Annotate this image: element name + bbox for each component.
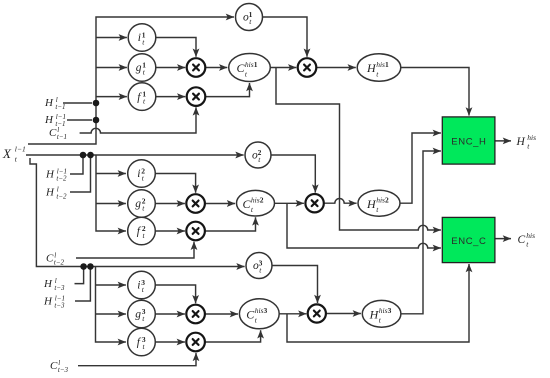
svg-text:i: i xyxy=(137,168,140,180)
svg-text:C: C xyxy=(518,234,526,246)
svg-text:his: his xyxy=(376,60,385,69)
svg-text:t−2: t−2 xyxy=(56,193,67,201)
svg-text:t: t xyxy=(526,239,529,248)
svg-text:2: 2 xyxy=(260,196,264,205)
svg-text:H: H xyxy=(43,296,53,308)
svg-text:H: H xyxy=(43,278,53,290)
svg-text:ENC_H: ENC_H xyxy=(451,136,486,147)
svg-text:t−2: t−2 xyxy=(54,259,65,267)
svg-text:H: H xyxy=(516,136,526,148)
svg-text:t−1: t−1 xyxy=(55,103,65,111)
svg-text:his: his xyxy=(379,306,388,315)
svg-text:3: 3 xyxy=(388,306,392,315)
svg-text:i: i xyxy=(138,32,141,44)
svg-text:X: X xyxy=(2,146,12,161)
svg-text:C: C xyxy=(50,360,58,372)
svg-text:g: g xyxy=(135,198,141,210)
svg-text:t−3: t−3 xyxy=(54,302,65,310)
svg-text:his: his xyxy=(251,196,260,205)
svg-text:his: his xyxy=(245,60,254,69)
svg-text:t: t xyxy=(527,141,530,150)
svg-text:i: i xyxy=(137,280,140,292)
svg-text:H: H xyxy=(44,97,54,109)
svg-text:3: 3 xyxy=(264,306,268,315)
svg-text:t−3: t−3 xyxy=(54,284,65,292)
svg-text:g: g xyxy=(135,309,141,321)
svg-text:l−1: l−1 xyxy=(15,145,26,154)
svg-text:ENC_C: ENC_C xyxy=(451,236,486,247)
svg-text:C: C xyxy=(46,253,54,265)
svg-text:1: 1 xyxy=(385,60,389,69)
svg-text:g: g xyxy=(136,62,142,74)
svg-text:C: C xyxy=(49,127,57,139)
svg-text:t−3: t−3 xyxy=(58,366,69,374)
svg-text:t−1: t−1 xyxy=(57,133,67,141)
svg-text:his: his xyxy=(255,306,264,315)
svg-text:1: 1 xyxy=(254,60,258,69)
svg-text:2: 2 xyxy=(385,196,389,205)
svg-text:H: H xyxy=(44,114,54,126)
svg-text:his: his xyxy=(376,196,385,205)
svg-text:H: H xyxy=(45,169,55,181)
svg-text:t: t xyxy=(15,155,18,164)
svg-text:H: H xyxy=(45,187,55,199)
svg-text:t−2: t−2 xyxy=(56,175,67,183)
